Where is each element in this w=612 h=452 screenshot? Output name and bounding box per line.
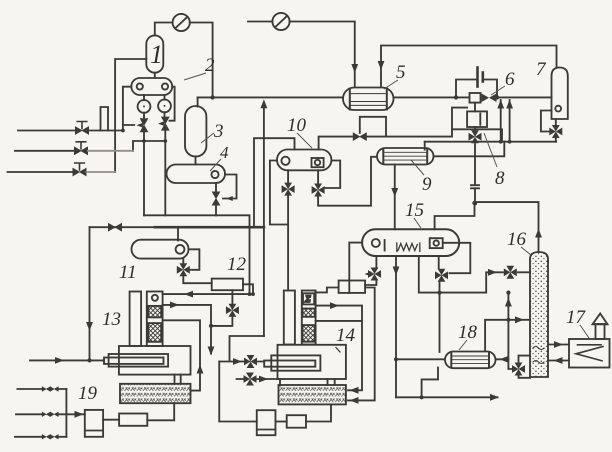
- valves 19A: [42, 386, 59, 391]
- leader 16: [521, 247, 531, 255]
- node riser taps 18: [506, 291, 510, 322]
- valve 8: [469, 130, 482, 143]
- wire vessel11 right loop: [189, 249, 200, 269]
- wire vessel10 left drain: [287, 170, 289, 290]
- wire exchanger18 bottom loop: [422, 368, 438, 398]
- mark inside box14: [336, 348, 340, 353]
- wire vessel15 left drain: [365, 256, 376, 285]
- wire valve16 to column: [518, 271, 530, 273]
- heater 14 tube: [264, 361, 315, 367]
- valve F1: [75, 122, 89, 135]
- manifold 19: [65, 389, 67, 437]
- exchanger 5: [343, 88, 394, 111]
- loop vessel15 right nozzle to valve: [444, 243, 471, 273]
- wire drop to vessel3: [197, 97, 199, 106]
- lower tap of instrument loop: [452, 129, 502, 141]
- furnace 14 left stack: [284, 291, 295, 345]
- valve V14F: [244, 355, 257, 368]
- product line out: [396, 396, 498, 398]
- wire heater14 feed with valve: [219, 336, 264, 362]
- valve V16B: [512, 363, 525, 376]
- riser B to main line: [509, 100, 511, 142]
- heater 13 tube: [104, 358, 164, 364]
- wire drain to column16 overhead: [475, 188, 539, 252]
- valve V15L: [365, 268, 382, 281]
- furnace 14 fuel loop: [316, 306, 362, 391]
- leader 15: [414, 218, 421, 228]
- overhead line along y141.7: [425, 141, 557, 143]
- wire vessel15 overhead to column line: [435, 202, 475, 229]
- node bypass taps: [454, 95, 499, 99]
- wire inst12 bottom to valve: [231, 290, 233, 304]
- svg-text:3: 3: [213, 121, 224, 142]
- svg-text:17: 17: [566, 307, 587, 328]
- node flue joins: [248, 292, 255, 296]
- node manifold taps: [142, 139, 167, 143]
- riser with up arrow from below: [263, 104, 265, 336]
- wire vessel15 bottom drain: [395, 256, 397, 397]
- furnace 13 left stack: [130, 292, 142, 347]
- wire manifold: [133, 141, 165, 151]
- top return line from exchanger5 to vessel7: [381, 46, 557, 88]
- wire box to valve8: [474, 127, 476, 130]
- svg-text:7: 7: [536, 59, 547, 80]
- wire exchanger18 top to column16: [485, 320, 530, 352]
- wire vessel10 left nozzle loop: [270, 161, 288, 225]
- vessel 4: [167, 165, 226, 184]
- valve V10L: [282, 183, 295, 196]
- solenoid bars: [476, 68, 479, 87]
- svg-text:1: 1: [150, 40, 163, 69]
- fuel filter 13: [119, 414, 147, 426]
- leader 4: [210, 159, 221, 171]
- vessel 10: [277, 150, 331, 171]
- vessel 1: [146, 35, 163, 72]
- svg-text:Σ: Σ: [304, 295, 311, 305]
- fuel pot 14: [257, 410, 276, 435]
- wire exchanger9 bottom to vessel15: [394, 165, 396, 230]
- wire column16 bottom valve: [508, 356, 530, 378]
- node J1: [210, 95, 214, 99]
- valve under G1: [137, 118, 149, 132]
- wire vessel4 right loop: [223, 175, 237, 199]
- exchanger 9: [377, 148, 434, 165]
- vessel 3: [185, 106, 206, 157]
- drain header: [144, 215, 250, 294]
- wire feed1 cont: [89, 130, 123, 132]
- flue line to furnace 13: [163, 293, 253, 295]
- furnace 13 fuel loop: [163, 320, 200, 390]
- main line after valve6: [497, 96, 552, 98]
- node feed13: [87, 358, 91, 362]
- fuel pot 19: [85, 410, 103, 437]
- valves 19B: [42, 412, 59, 417]
- fuel line A: [17, 388, 66, 390]
- wire vessel11 feed stub: [177, 227, 179, 240]
- wire valve8 drain: [474, 143, 476, 184]
- fuel line B: [16, 413, 66, 415]
- main line to exchanger5: [198, 96, 470, 98]
- positioner box: [467, 111, 487, 127]
- wire P1 to main line: [190, 23, 213, 98]
- wire feed to exchanger18: [396, 358, 444, 360]
- svg-text:16: 16: [507, 229, 527, 250]
- node J12: [209, 324, 213, 328]
- heater 13 middle box: [109, 354, 169, 367]
- wire inst15 to furnace14 stack: [316, 288, 339, 293]
- valves 19C: [42, 434, 59, 439]
- leader 17: [580, 325, 589, 338]
- svg-text:19: 19: [78, 383, 98, 404]
- valve V5: [108, 223, 122, 232]
- valve V15R: [435, 269, 448, 282]
- wire vessel7 bypass loop: [541, 111, 552, 132]
- furnace feed line with valve: [90, 226, 156, 228]
- feed line 3: [8, 171, 73, 173]
- wire exchanger9 top stub: [424, 142, 426, 150]
- wire vessel4 drain: [215, 183, 217, 215]
- union joint: [471, 185, 479, 188]
- wire vessel1 top to pump P1: [155, 23, 173, 36]
- valve F3: [73, 163, 87, 176]
- fuel line C: [15, 436, 66, 438]
- exchanger 18: [445, 352, 496, 369]
- node riser taps: [499, 140, 512, 144]
- wire drum2 left frame: [123, 87, 134, 131]
- wire vessel10 right loop: [325, 161, 341, 189]
- wire vessel10 right drain to exchanger9: [318, 157, 377, 206]
- feed line to vessel10: [254, 138, 295, 227]
- transfer line to valve16: [419, 256, 503, 293]
- svg-text:13: 13: [102, 309, 121, 330]
- gauge G2: [158, 100, 171, 113]
- heater 14 outer box: [278, 345, 346, 379]
- wire pot14 to filter: [276, 421, 287, 423]
- fuel filter 14: [287, 415, 306, 428]
- wires heater to burner 14: [328, 379, 335, 385]
- pump P2: [272, 13, 289, 30]
- wire drum2 right frame: [170, 87, 175, 121]
- bypass loop: [360, 117, 386, 137]
- leader 10: [297, 133, 312, 148]
- wire valve6 to box: [474, 103, 476, 112]
- heater 13 feed line: [30, 359, 104, 361]
- control valve 6: [470, 93, 497, 103]
- valve V11: [177, 263, 190, 276]
- valve V4: [212, 192, 233, 206]
- wire burner14 fuel train: [219, 362, 257, 422]
- valve V12: [226, 304, 239, 317]
- leader 8: [484, 133, 497, 167]
- leader 3: [201, 133, 214, 143]
- solenoid bypass wires: [456, 80, 497, 98]
- furnace13 offgas line: [163, 305, 211, 354]
- vessel 7: [552, 68, 568, 120]
- leader 6: [491, 86, 505, 95]
- svg-text:4: 4: [220, 143, 229, 162]
- furnace 14 right stack: [302, 291, 316, 345]
- wire vessel7 drain: [555, 119, 557, 142]
- wire inst12 right: [243, 284, 253, 294]
- svg-text:14: 14: [336, 325, 356, 346]
- burner box 13: [120, 384, 191, 403]
- wire gauge stub left: [143, 95, 145, 100]
- leader 18: [459, 340, 467, 350]
- leader 9: [411, 160, 424, 175]
- svg-text:10: 10: [287, 115, 307, 136]
- wire valve14B branch: [237, 379, 281, 386]
- svg-text:2: 2: [205, 55, 215, 76]
- burner box 14: [279, 385, 346, 404]
- svg-text:6: 6: [505, 69, 515, 90]
- wire furnace13 feed drop: [89, 227, 91, 360]
- node J18b: [420, 395, 424, 399]
- valve V16F: [504, 266, 517, 279]
- node J15R: [437, 291, 441, 295]
- vessel 11: [132, 240, 189, 259]
- gauge G1: [138, 100, 151, 113]
- valve V7: [549, 125, 562, 138]
- leader 2: [184, 73, 206, 80]
- wire manifold19 to pot: [66, 413, 84, 415]
- valve V14B: [244, 373, 257, 386]
- feed line 1: [18, 130, 75, 132]
- leader 5: [384, 80, 398, 89]
- chimney 17: [593, 314, 608, 340]
- cooler 17: [569, 339, 610, 368]
- svg-text:8: 8: [495, 168, 505, 189]
- wire into P2: [248, 21, 272, 23]
- wire P2 to exchanger5: [290, 22, 355, 88]
- valve under G2: [158, 117, 170, 131]
- wire feed2 cont: [88, 150, 133, 152]
- pump P1: [173, 14, 190, 31]
- wire vessel1 to drum2: [154, 73, 156, 78]
- wire filter to pot: [103, 419, 119, 421]
- heater 14 middle box: [271, 355, 320, 370]
- svg-text:11: 11: [119, 262, 137, 283]
- wire G1 to valve: [143, 113, 145, 119]
- wire vessel15 right drain: [438, 256, 441, 352]
- svg-text:12: 12: [227, 254, 247, 275]
- wire gauge stub right: [164, 95, 166, 100]
- svg-text:18: 18: [458, 322, 478, 343]
- hot line with bypass valve: [319, 108, 468, 150]
- instrument 15: [339, 281, 366, 293]
- wire filter14 to burner: [306, 404, 331, 421]
- node J18f: [394, 357, 398, 361]
- wire vessel15 left nozzle loop: [349, 243, 362, 293]
- drum 2: [131, 78, 172, 95]
- valve VB: [353, 132, 367, 141]
- riser to exchanger18 shell: [496, 293, 508, 360]
- wire inst15 right to burner14: [348, 288, 375, 401]
- feed line 2: [15, 150, 74, 152]
- wire cooler17 return: [548, 360, 569, 362]
- loop lines feed1-feed2: [101, 107, 109, 131]
- column 16: [530, 252, 548, 377]
- wire vessel3 to vessel4: [195, 157, 197, 165]
- node feed1: [121, 129, 125, 133]
- node J8: [473, 201, 477, 205]
- wire column16 to cooler 17: [548, 344, 569, 346]
- valve V10R: [312, 184, 325, 197]
- valve F2: [74, 142, 88, 155]
- heater 13 outer box: [119, 346, 191, 375]
- wire G2 to valve: [164, 112, 166, 117]
- wire valve drains to drain header: [144, 131, 165, 216]
- wire burner13 to fuel train: [147, 403, 174, 420]
- wires heater to burner 13: [175, 375, 181, 384]
- wire exchanger9 outlet: [434, 142, 505, 157]
- instrument 12: [212, 279, 243, 291]
- wire vessel1 left nozzle: [115, 59, 146, 172]
- furnace 13 right stack: [147, 292, 163, 347]
- node J15: [472, 201, 476, 205]
- riser A to main line: [500, 100, 502, 142]
- wire valve12 drain: [211, 317, 232, 326]
- wire feed3 cont: [87, 171, 116, 173]
- wire vessel11 drain: [183, 259, 211, 284]
- vessel 15: [362, 229, 459, 256]
- svg-text:9: 9: [422, 174, 432, 195]
